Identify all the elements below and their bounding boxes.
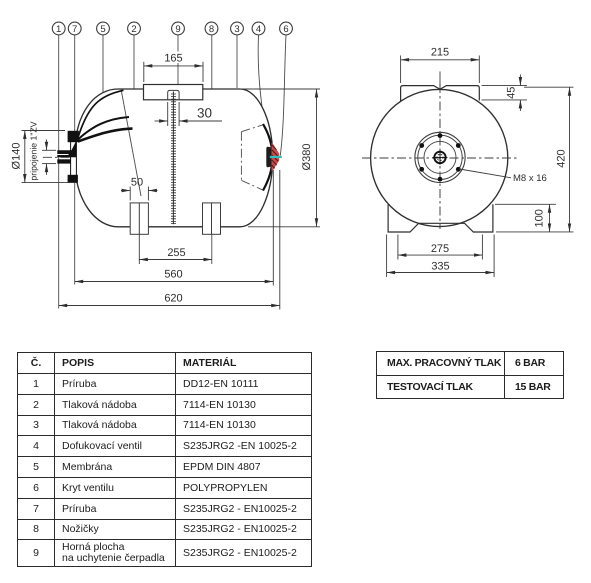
flange bolt top: [68, 131, 79, 142]
flange circle raised face: [418, 135, 462, 179]
threaded rod: [171, 92, 176, 225]
pressure table: [376, 351, 564, 399]
dimension 560: [75, 170, 274, 286]
leader line callout 9 to top plate: [177, 35, 179, 85]
connection bore dimension: [42, 140, 56, 175]
flange gusset: [71, 141, 77, 152]
svg-text:560: 560: [164, 269, 182, 281]
svg-text:255: 255: [167, 247, 185, 259]
svg-text:50: 50: [131, 177, 143, 189]
dimension 255: [139, 235, 212, 265]
svg-text:5: 5: [100, 24, 105, 35]
dimension 100: [495, 204, 556, 232]
svg-text:165: 165: [164, 53, 182, 65]
svg-text:M8 x 16: M8 x 16: [513, 173, 547, 184]
svg-text:9: 9: [175, 24, 180, 35]
membrane curve lower: [78, 129, 133, 142]
dimension 30: [155, 102, 223, 126]
svg-text:215: 215: [431, 47, 449, 59]
leader line callout 2 to shell: [133, 35, 135, 89]
callout 9: [172, 22, 185, 35]
leader line callout 5 to membrane: [102, 35, 104, 121]
dimension 335: [387, 235, 495, 278]
front centerline horizontal: [362, 157, 518, 159]
callout 6: [280, 22, 293, 35]
svg-text:45: 45: [506, 87, 518, 99]
leader line callout 4 to valve: [258, 35, 271, 152]
svg-text:100: 100: [534, 209, 546, 227]
callout 4: [252, 22, 265, 35]
membrane phantom (right position): [241, 125, 264, 191]
front centerline stub above plate: [439, 72, 441, 90]
leader line callout 1 / 620 extension: [58, 35, 60, 309]
svg-text:Ø380: Ø380: [301, 144, 313, 171]
svg-text:2: 2: [131, 24, 136, 35]
left dish seam: [121, 89, 141, 196]
dimension 620: [59, 170, 280, 310]
leader line callout 7 / 560 extension: [74, 35, 76, 285]
leader line callout 8 to foot / 255 extension: [211, 35, 213, 264]
flange circle inner: [424, 141, 456, 173]
air valve red cone: [272, 143, 280, 172]
callout 3: [231, 22, 244, 35]
air valve body: [266, 147, 271, 167]
centerline side view: [43, 156, 282, 158]
front centerline vertical inner: [439, 84, 441, 229]
leader line callout 3 to shell: [236, 35, 238, 88]
dimension Ø380: [240, 89, 320, 227]
label M8 x 16: [460, 169, 547, 184]
svg-text:420: 420: [556, 149, 568, 167]
top plate side view: [144, 85, 203, 100]
dimension 215: [401, 47, 480, 84]
membrane curve middle: [78, 117, 129, 140]
callout 1: [52, 22, 65, 35]
flange circle outer: [415, 132, 465, 182]
front shell circle: [371, 89, 508, 226]
dimension 420: [496, 87, 574, 232]
svg-text:6: 6: [283, 24, 288, 35]
svg-text:4: 4: [256, 24, 261, 35]
dimension 45: [482, 75, 528, 112]
parts list table: [17, 352, 312, 567]
svg-text:620: 620: [164, 293, 182, 305]
tank side view shell: [74, 89, 272, 227]
svg-text:3: 3: [234, 24, 239, 35]
nozzle lower bar: [57, 159, 70, 163]
callout 8: [205, 22, 218, 35]
svg-text:pripojenie 1"ZV: pripojenie 1"ZV: [29, 121, 39, 180]
center hub: [433, 150, 448, 165]
dimension 165: [144, 52, 203, 83]
plate slot: [168, 90, 179, 99]
membrane pressed on right dome: [263, 124, 273, 191]
foot right side view: [203, 203, 221, 234]
svg-text:Ø140: Ø140: [11, 143, 23, 170]
svg-text:30: 30: [197, 106, 212, 121]
dimension 50: [121, 177, 158, 201]
valve cap teal: [270, 156, 282, 158]
flange left: disc: [71, 132, 77, 183]
svg-text:7: 7: [72, 24, 77, 35]
membrane curve upper: [78, 90, 124, 137]
bolt holes M8: [419, 133, 460, 181]
callout 2: [128, 22, 141, 35]
flange bolt bottom: [68, 175, 78, 183]
leader line callout 6 to valve cap: [280, 35, 286, 156]
callout 7: [68, 22, 81, 35]
foot left side view: [130, 203, 148, 234]
dimension Ø140: [11, 131, 77, 183]
svg-text:335: 335: [431, 260, 449, 272]
dimension 275: [398, 235, 483, 260]
svg-text:1: 1: [56, 24, 61, 35]
callout 5: [97, 22, 110, 35]
front top plate: [401, 86, 480, 102]
svg-text:8: 8: [209, 24, 214, 35]
front base: [388, 204, 493, 232]
svg-text:275: 275: [431, 243, 449, 255]
connection nozzle: [57, 150, 76, 157]
